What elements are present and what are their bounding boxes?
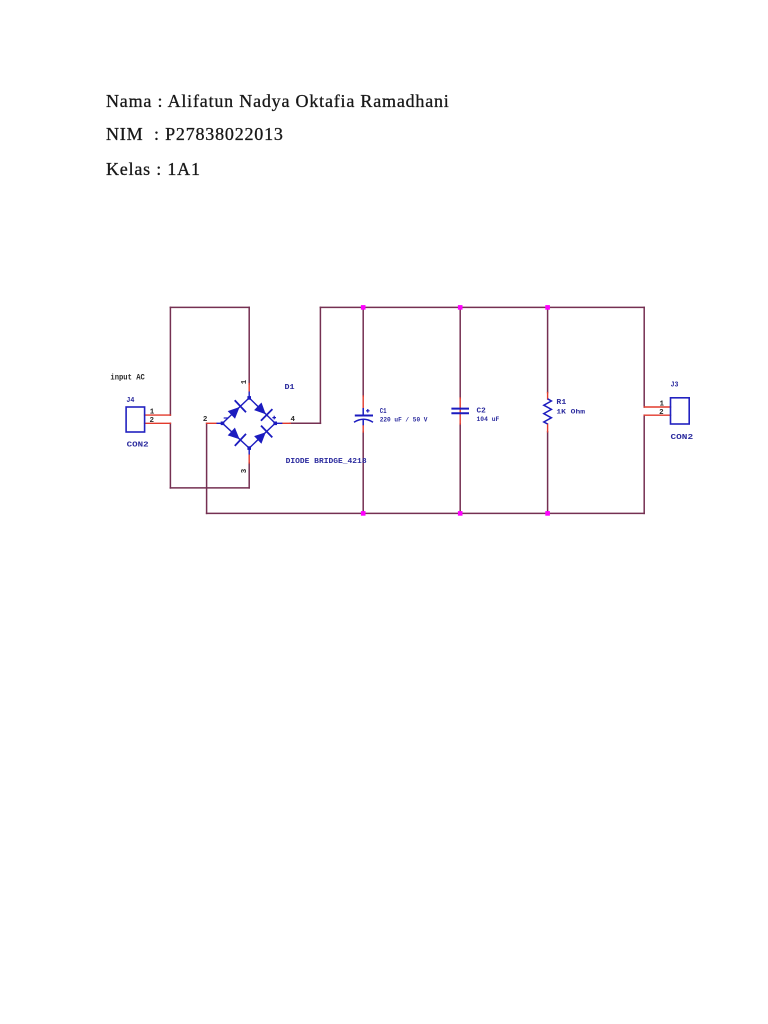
C2 bottom plate: [451, 412, 469, 414]
C1 lead top: [362, 408, 364, 415]
bridge edge BL: [223, 423, 250, 448]
junction dot C2 bottom: [458, 511, 463, 516]
svg-text:104 uF: 104 uF: [477, 416, 500, 423]
svg-text:J3: J3: [671, 382, 679, 390]
wire C1 vertical lower: [362, 432, 364, 513]
wire R1 vertical lower: [547, 432, 549, 514]
svg-text:CON2: CON2: [671, 434, 694, 442]
wire bottom jog horizontal y=488: [170, 487, 249, 489]
bridge edge TR: [249, 398, 275, 423]
svg-text:1K Ohm: 1K Ohm: [556, 409, 585, 416]
bridge lead right: [275, 422, 282, 424]
pin stub J3 pin1: [644, 406, 670, 408]
pin stub R1 top: [547, 393, 549, 399]
svg-text:DIODE BRIDGE_4218: DIODE BRIDGE_4218: [286, 458, 368, 466]
svg-text:input AC: input AC: [110, 374, 145, 383]
svg-text:220 uF / 50 V: 220 uF / 50 V: [380, 417, 428, 424]
diode bridge D1: [217, 392, 283, 455]
svg-text:2: 2: [150, 417, 155, 425]
pin stub C2: [459, 398, 461, 424]
connector J4: [126, 407, 145, 432]
pin stub J4 pin1: [145, 414, 171, 416]
svg-text:R1: R1: [556, 399, 566, 407]
svg-text:1: 1: [241, 379, 249, 384]
wire top rail left segment: [170, 306, 249, 308]
wire right vertical upper (J3 pin1): [643, 307, 645, 407]
pin stub bridge bottom: [248, 455, 250, 463]
connector J3: [671, 398, 690, 424]
svg-text:C2: C2: [477, 408, 487, 416]
svg-text:1: 1: [150, 409, 155, 417]
pin stub bridge right: [282, 422, 290, 424]
svg-text:D1: D1: [285, 384, 296, 392]
C1 top plate: [355, 415, 373, 417]
wire bridge top feed vertical: [248, 307, 250, 384]
C1 lead bottom: [362, 420, 364, 426]
diode BR: [254, 426, 272, 444]
junction dot C1 bottom: [361, 511, 366, 516]
bridge corner node R: [273, 422, 277, 426]
diode TL: [228, 400, 246, 419]
diode BL: [228, 428, 246, 446]
wire right vertical lower (J3 pin2): [643, 415, 645, 513]
C2 top plate: [451, 408, 469, 410]
pin stub C1 bottom: [362, 425, 364, 432]
capacitor C1 (polarized): [354, 408, 373, 425]
svg-text:J4: J4: [126, 397, 135, 405]
junction dot C1 top: [361, 305, 366, 310]
bridge polarity plus: [272, 416, 276, 420]
C1 arc plate: [354, 419, 373, 422]
header line 2: [106, 125, 284, 143]
pin stub bridge top: [248, 384, 250, 392]
svg-text:C1: C1: [380, 408, 387, 416]
wire left vertical upper (J4 pin1 net): [169, 307, 171, 415]
wire C2 vertical upper: [459, 307, 461, 398]
bridge edge TL: [223, 398, 250, 423]
wire bridge minus vertical x=206.6: [206, 423, 208, 513]
svg-text:4: 4: [291, 416, 296, 424]
pin stub bridge left: [207, 422, 217, 424]
svg-text:2: 2: [203, 416, 208, 424]
svg-text:CON2: CON2: [127, 441, 149, 449]
pin stub C1 top: [362, 396, 364, 408]
C1 plus sign: [366, 409, 370, 413]
resistor R1 zigzag: [544, 399, 552, 424]
bridge lead bottom: [248, 448, 250, 454]
bridge corner node T: [247, 396, 251, 400]
header line 1: [106, 92, 450, 110]
junction dot C2 top: [458, 305, 463, 310]
wire left vertical lower (J4 pin2 net): [169, 423, 171, 488]
bridge edge BR: [249, 423, 275, 448]
wire bridge output vertical x=320: [319, 307, 321, 423]
bridge corner node B: [247, 446, 251, 450]
pin stub J3 pin2: [644, 414, 670, 416]
svg-text:1: 1: [660, 401, 665, 409]
bridge lead left: [217, 422, 223, 424]
diode TR: [254, 403, 272, 421]
pin stub J4 pin2: [145, 422, 171, 424]
svg-text:3: 3: [241, 468, 249, 473]
bridge corner node L: [221, 422, 225, 426]
junction dot R1 top: [545, 305, 550, 310]
bridge polarity minus: [224, 417, 228, 419]
wire bridge bottom feed vertical: [248, 463, 250, 488]
header line 3: [106, 160, 201, 178]
wire top rail right segment: [320, 306, 644, 308]
svg-text:2: 2: [659, 409, 664, 417]
wire R1 vertical upper: [547, 307, 549, 392]
capacitor C2: [451, 409, 469, 414]
wire C2 vertical lower: [459, 424, 461, 513]
wire C1 vertical upper: [362, 307, 364, 396]
bridge lead top: [248, 392, 250, 398]
junction dot R1 bottom: [545, 511, 550, 516]
wire bridge output horizontal: [290, 422, 320, 424]
wire bottom rail: [207, 512, 645, 514]
pin stub R1 bottom: [547, 424, 549, 432]
